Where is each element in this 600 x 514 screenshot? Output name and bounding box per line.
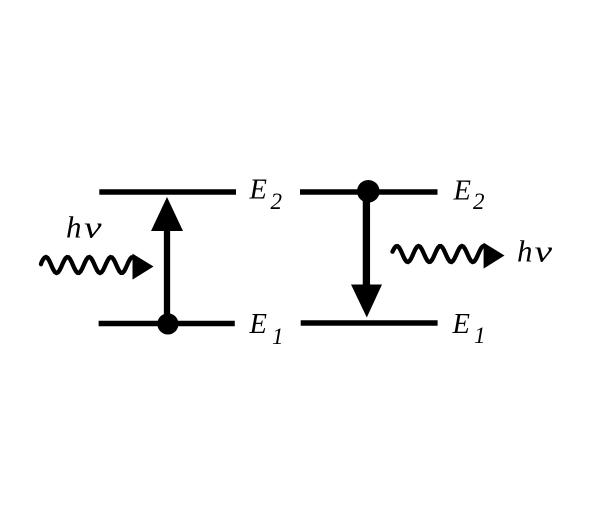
electron dot on E1 (left) [157,313,178,334]
incoming photon wavy arrow (left) [41,254,154,280]
svg-text:h: h [517,234,533,269]
label h-nu (right photon) [517,234,552,269]
svg-text:1: 1 [474,323,486,348]
svg-text:E: E [452,309,470,340]
svg-text:h: h [66,210,82,245]
svg-text:ν: ν [535,234,553,269]
svg-text:E: E [453,176,471,207]
downward transition arrow (emission) [351,192,382,318]
label E1 (right) [452,309,486,348]
energy level E2 line (right, emission diagram) [300,189,438,194]
emitted photon wavy arrow (right) [393,243,505,269]
svg-text:2: 2 [473,189,485,214]
upward transition arrow (absorption) [151,197,183,324]
svg-text:E: E [249,309,267,340]
label E2 (right) [453,176,485,215]
svg-text:E: E [249,175,267,206]
svg-text:ν: ν [84,210,102,245]
svg-text:2: 2 [271,189,283,214]
energy level E2 line (left, absorption diagram) [99,189,236,194]
energy level E1 line (left, absorption diagram) [99,321,235,326]
label E2 (left) [249,175,283,215]
energy level E1 line (right, emission diagram) [301,320,438,325]
label h-nu (left photon) [66,210,102,245]
label E1 (left) [249,309,284,349]
svg-text:1: 1 [272,324,284,349]
electron dot on E2 (right) [357,180,380,203]
